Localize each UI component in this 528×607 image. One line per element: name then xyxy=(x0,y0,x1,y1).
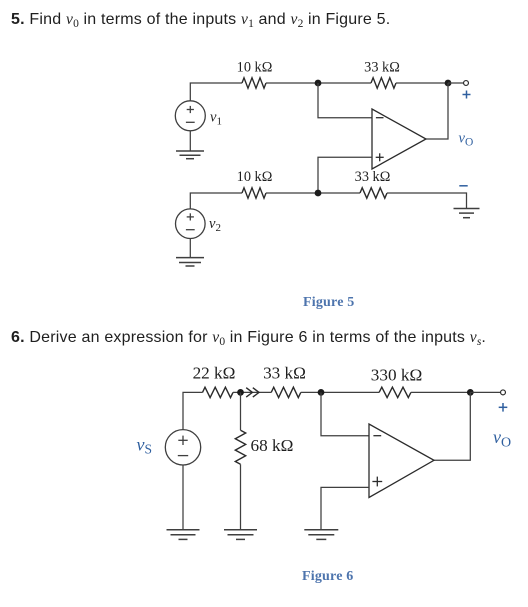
resistor R2 feedback xyxy=(371,78,396,88)
wire v1 to ground xyxy=(189,131,191,151)
wire R4 to ground circuit 1 xyxy=(387,193,467,208)
output node circuit 1 xyxy=(445,80,452,87)
op-amp U1 xyxy=(372,109,426,169)
svg-text:330 kΩ: 330 kΩ xyxy=(371,366,422,385)
svg-text:33 kΩ: 33 kΩ xyxy=(364,60,400,76)
wire output node to terminal xyxy=(470,391,500,393)
resistor R4 xyxy=(360,188,387,198)
wire R5 to node C xyxy=(233,391,271,393)
ground under vS xyxy=(167,530,200,540)
connector chevrons on wire xyxy=(246,388,259,397)
svg-text:33 kΩ: 33 kΩ xyxy=(263,364,306,383)
wire vS to ground xyxy=(182,465,184,529)
voltage source v2 xyxy=(176,209,206,239)
svg-text:68 kΩ: 68 kΩ xyxy=(251,436,294,455)
wire vS to R5 xyxy=(183,392,203,430)
svg-text:vS: vS xyxy=(137,435,153,457)
resistor R8 xyxy=(235,430,245,464)
wire v2 to ground xyxy=(189,239,191,258)
output polarity + label circuit 2 xyxy=(499,403,508,412)
wire node C to R8 xyxy=(240,392,242,430)
svg-text:v2: v2 xyxy=(209,216,221,234)
wire v1 to R1 xyxy=(190,83,242,101)
wire R2 to output node xyxy=(396,82,448,84)
wire output node down to op-amp output xyxy=(426,83,448,139)
node D junction xyxy=(318,389,325,396)
node B junction xyxy=(315,190,322,197)
wire op-amp noninverting input to ground xyxy=(321,487,369,529)
output polarity + label circuit 1 xyxy=(463,91,471,99)
wire v2 to R3 xyxy=(190,193,242,209)
resistor R1 xyxy=(242,78,266,88)
wire R3 to node B xyxy=(266,192,360,194)
node C junction xyxy=(237,389,244,396)
ground under op-amp input xyxy=(304,530,338,540)
ground under v2 xyxy=(176,258,204,266)
resistor R6 xyxy=(271,387,301,397)
output terminal circuit 2 xyxy=(501,390,506,395)
resistor R7 xyxy=(379,387,411,397)
resistor R5 xyxy=(203,387,234,397)
ground under v1 xyxy=(176,151,204,159)
svg-text:10 kΩ: 10 kΩ xyxy=(237,60,273,76)
svg-text:vO: vO xyxy=(493,427,511,451)
wire R7 to output node xyxy=(411,391,470,393)
ground under R8 xyxy=(224,530,257,540)
wire R8 to ground xyxy=(240,464,242,529)
wire op-amp noninverting input to node B xyxy=(318,157,372,193)
resistor R3 xyxy=(242,188,266,198)
svg-text:22 kΩ: 22 kΩ xyxy=(193,364,236,383)
output terminal circuit 1 xyxy=(464,81,469,86)
svg-text:33 kΩ: 33 kΩ xyxy=(355,169,391,185)
svg-text:v1: v1 xyxy=(210,110,222,128)
ground right circuit 1 xyxy=(454,209,480,218)
voltage source vS xyxy=(165,430,200,465)
node A junction xyxy=(315,80,322,87)
wire output node down to op-amp output xyxy=(434,392,470,460)
svg-text:vO: vO xyxy=(459,131,474,149)
svg-text:10 kΩ: 10 kΩ xyxy=(237,169,273,185)
wire node D to op-amp inverting input xyxy=(321,392,369,435)
output polarity - label circuit 1 xyxy=(459,185,467,187)
wire node A to op-amp inverting input xyxy=(318,83,372,118)
op-amp U2 xyxy=(369,424,434,498)
wire output node to terminal xyxy=(448,82,463,84)
voltage source v1 xyxy=(175,101,205,131)
wire R6 to node D xyxy=(301,391,379,393)
output node circuit 2 xyxy=(467,389,474,396)
wire R1 to node A xyxy=(266,82,371,84)
